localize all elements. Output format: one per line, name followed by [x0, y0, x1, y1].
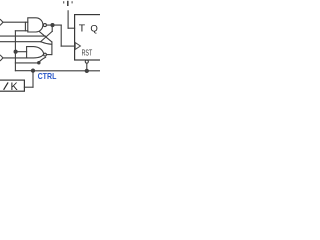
svg-text:RST: RST — [82, 48, 93, 58]
svg-text:CTRL: CTRL — [38, 71, 57, 81]
svg-text:K: K — [11, 81, 19, 93]
svg-text:T: T — [79, 24, 86, 35]
svg-text:Q: Q — [90, 23, 97, 34]
